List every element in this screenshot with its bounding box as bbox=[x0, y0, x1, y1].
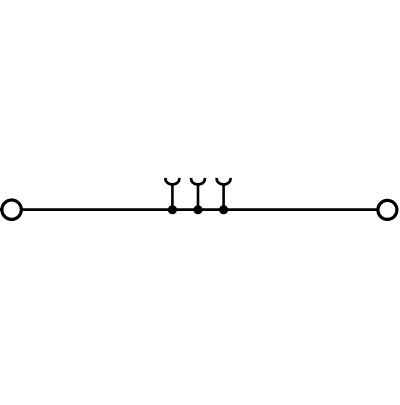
socket fork 1 bbox=[166, 178, 180, 210]
junction node 1 bbox=[168, 205, 177, 214]
terminal left clamp circle bbox=[2, 200, 21, 219]
terminal right clamp circle bbox=[378, 200, 397, 219]
socket fork 2 bbox=[191, 178, 205, 210]
junction node 2 bbox=[193, 205, 202, 214]
socket fork 3 bbox=[217, 178, 231, 210]
wire main horizontal conductor bbox=[0, 208, 398, 211]
junction node 3 bbox=[219, 205, 228, 214]
